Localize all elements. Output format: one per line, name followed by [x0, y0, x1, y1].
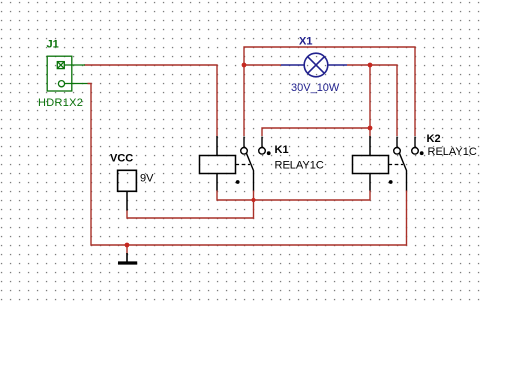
relay K1 actuation dashed link — [236, 164, 251, 166]
svg-text:K1: K1 — [275, 144, 289, 156]
relay K1 contact pins — [244, 137, 262, 148]
wire J1 pin 1 to K1 coil top — [84, 65, 217, 136]
wire lamp-right junction down to K2 coil top — [369, 65, 371, 136]
junction dot A — [242, 63, 247, 68]
wire K1 coil bottom to K2 coil bottom — [217, 190, 370, 200]
relay K2 NC contact — [394, 148, 401, 155]
relay K1 armature — [246, 153, 253, 190]
relay K1 coil — [200, 136, 236, 191]
junction dot B — [368, 63, 373, 68]
relay K2 coil — [353, 136, 389, 191]
svg-text:RELAY1C: RELAY1C — [275, 160, 324, 172]
relay K1 contact marker dot — [267, 151, 271, 155]
relay K1 pin marker dot — [236, 180, 240, 184]
svg-text:9V: 9V — [140, 173, 154, 185]
junction dot E — [251, 198, 255, 202]
svg-text:HDR1X2: HDR1X2 — [38, 97, 83, 109]
wire K1 NC contact to K2 NO contact (top bus y=47) — [244, 47, 415, 136]
relay K2 actuation dashed link — [389, 164, 404, 166]
wire J1 pin 2 / ground bus to K2 common — [88, 84, 407, 246]
svg-text:J1: J1 — [47, 39, 59, 51]
connector J1 — [47, 56, 87, 91]
ground — [118, 253, 137, 263]
svg-text:X1: X1 — [299, 36, 312, 48]
wire battery negative to K1 common — [127, 190, 254, 218]
wire lamp right to K2 NC contact — [347, 65, 397, 136]
lamp X1 — [281, 53, 347, 77]
svg-text:RELAY1C: RELAY1C — [428, 146, 477, 158]
relay K2 NO contact — [412, 148, 419, 155]
relay K2 contact marker dot — [420, 151, 424, 155]
relay K2 armature — [399, 153, 406, 190]
junction dot D — [125, 243, 130, 248]
wire junction to lamp left — [244, 64, 281, 66]
svg-text:K2: K2 — [427, 133, 441, 145]
wire junction to K1 NO contact — [262, 128, 370, 136]
junction dot C — [368, 126, 373, 131]
wire ground stub — [126, 245, 128, 254]
relay K1 NO contact — [259, 148, 266, 155]
relay K1 NC contact — [241, 148, 248, 155]
battery VCC — [118, 170, 137, 210]
svg-text:VCC: VCC — [110, 153, 133, 165]
relay K2 contact pins — [397, 137, 415, 148]
svg-text:30V_10W: 30V_10W — [291, 82, 340, 94]
relay K2 pin marker dot — [389, 180, 393, 184]
